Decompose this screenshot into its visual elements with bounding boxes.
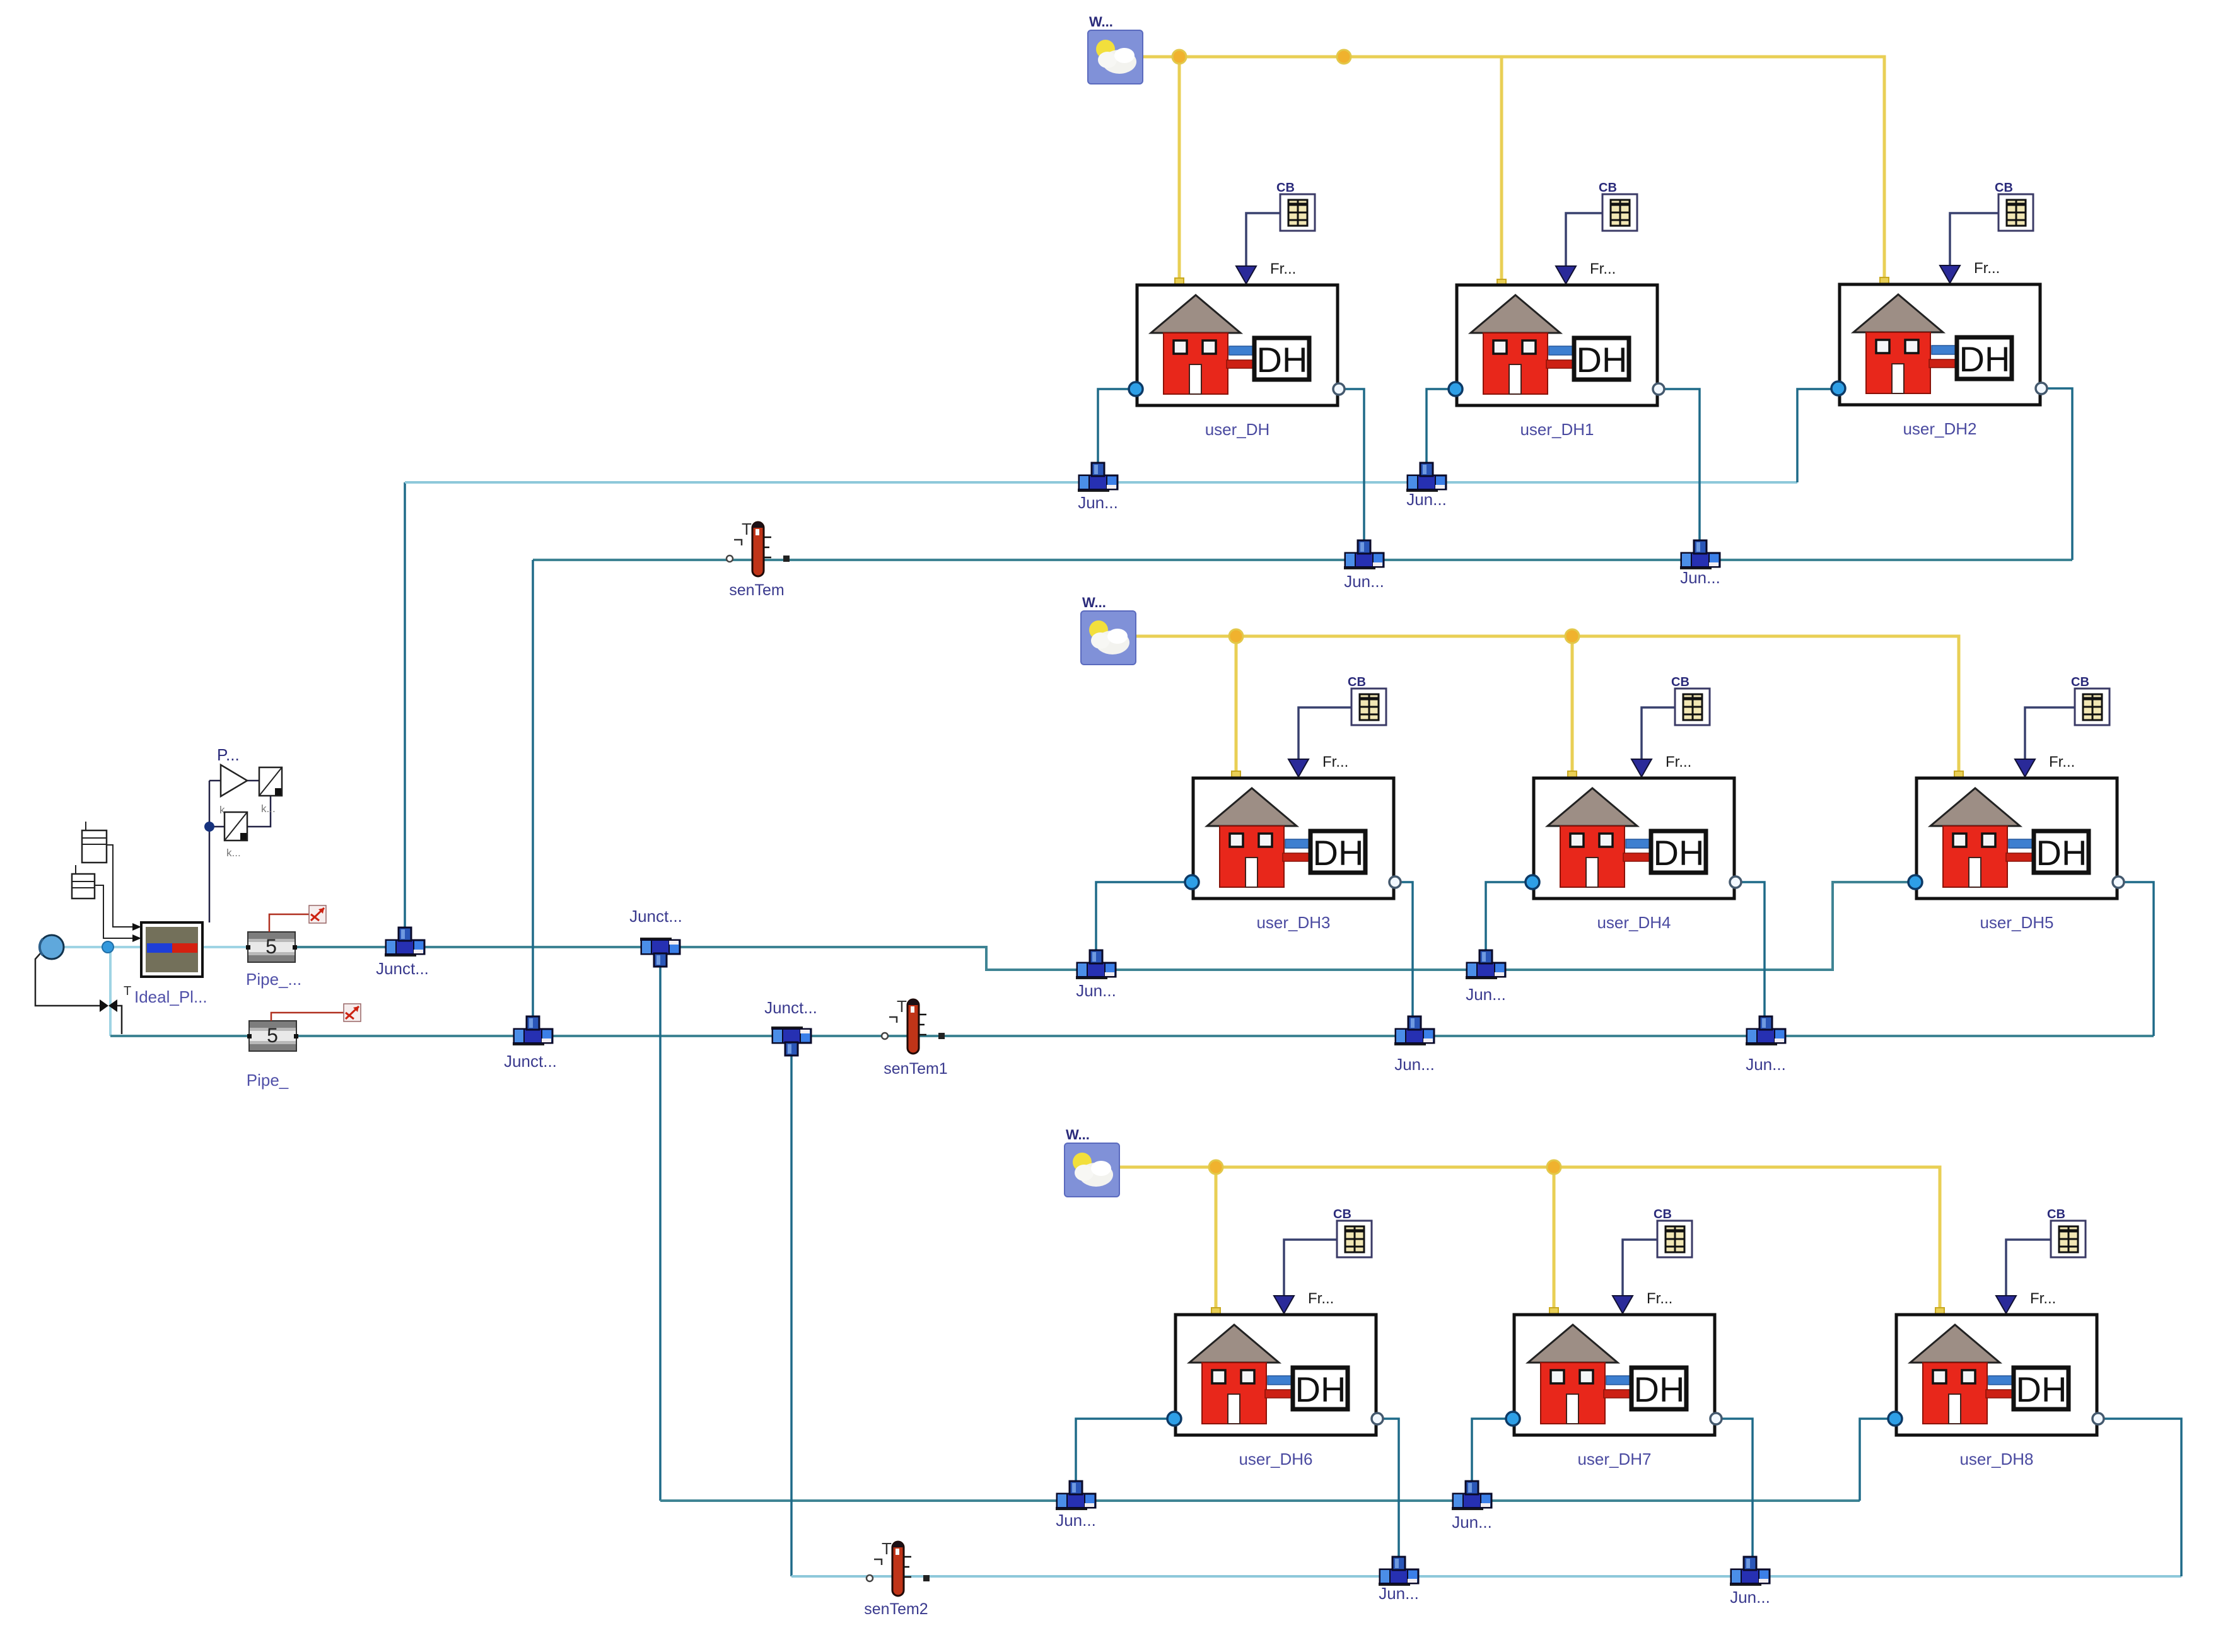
svg-text:user_DH: user_DH: [1205, 420, 1270, 439]
svg-text:Jun...: Jun...: [1056, 1511, 1096, 1530]
svg-text:senTem: senTem: [729, 581, 785, 599]
svg-text:CB: CB: [1276, 181, 1295, 195]
svg-text:CB: CB: [1348, 675, 1366, 689]
svg-text:CB: CB: [1995, 181, 2013, 195]
svg-text:CB: CB: [1654, 1207, 1672, 1221]
svg-text:CB: CB: [1333, 1207, 1351, 1221]
svg-text:P...: P...: [217, 745, 240, 764]
svg-text:Jun...: Jun...: [1394, 1055, 1435, 1074]
svg-text:k...: k...: [226, 847, 241, 859]
svg-text:Junct...: Junct...: [376, 959, 429, 978]
svg-text:Fr...: Fr...: [1590, 260, 1616, 277]
svg-text:W...: W...: [1082, 595, 1106, 610]
svg-text:user_DH5: user_DH5: [1980, 913, 2053, 932]
svg-text:Fr...: Fr...: [1647, 1290, 1672, 1307]
svg-text:Jun...: Jun...: [1076, 981, 1116, 1000]
svg-text:Pipe_: Pipe_: [247, 1071, 289, 1090]
svg-text:user_DH1: user_DH1: [1520, 420, 1594, 439]
svg-text:senTem1: senTem1: [884, 1060, 947, 1078]
svg-text:Fr...: Fr...: [2030, 1290, 2056, 1307]
svg-text:Jun...: Jun...: [1730, 1588, 1770, 1607]
svg-text:Fr...: Fr...: [2049, 753, 2075, 771]
svg-text:Fr...: Fr...: [1270, 260, 1296, 277]
svg-text:user_DH3: user_DH3: [1256, 913, 1330, 932]
svg-text:Pipe_...: Pipe_...: [246, 970, 301, 989]
svg-text:Jun...: Jun...: [1078, 493, 1118, 512]
svg-text:user_DH8: user_DH8: [1959, 1450, 2033, 1469]
svg-text:Fr...: Fr...: [1322, 753, 1348, 771]
svg-text:CB: CB: [2047, 1207, 2065, 1221]
svg-text:Fr...: Fr...: [1666, 753, 1691, 771]
svg-text:W...: W...: [1066, 1127, 1090, 1143]
svg-text:W...: W...: [1089, 14, 1113, 30]
svg-text:Jun...: Jun...: [1344, 572, 1384, 591]
svg-text:Fr...: Fr...: [1974, 260, 2000, 277]
svg-text:Junct...: Junct...: [764, 998, 817, 1017]
svg-text:Junct...: Junct...: [504, 1052, 557, 1071]
svg-text:Jun...: Jun...: [1746, 1055, 1786, 1074]
svg-text:Jun...: Jun...: [1466, 985, 1506, 1004]
svg-text:T: T: [124, 984, 131, 998]
svg-text:Jun...: Jun...: [1680, 568, 1720, 587]
svg-text:user_DH4: user_DH4: [1597, 913, 1671, 932]
svg-text:CB: CB: [1599, 181, 1617, 195]
svg-text:CB: CB: [1671, 675, 1689, 689]
svg-text:k...: k...: [261, 803, 276, 815]
svg-text:user_DH6: user_DH6: [1239, 1450, 1312, 1469]
svg-text:user_DH2: user_DH2: [1903, 419, 1976, 438]
svg-text:Ideal_Pl...: Ideal_Pl...: [134, 987, 207, 1006]
svg-text:Jun...: Jun...: [1452, 1513, 1492, 1532]
svg-text:Junct...: Junct...: [629, 907, 682, 926]
svg-text:CB: CB: [2071, 675, 2089, 689]
svg-text:Fr...: Fr...: [1308, 1290, 1334, 1307]
svg-text:Jun...: Jun...: [1379, 1584, 1419, 1603]
svg-text:Jun...: Jun...: [1406, 490, 1447, 509]
svg-text:senTem2: senTem2: [864, 1600, 928, 1618]
svg-text:user_DH7: user_DH7: [1577, 1450, 1651, 1469]
